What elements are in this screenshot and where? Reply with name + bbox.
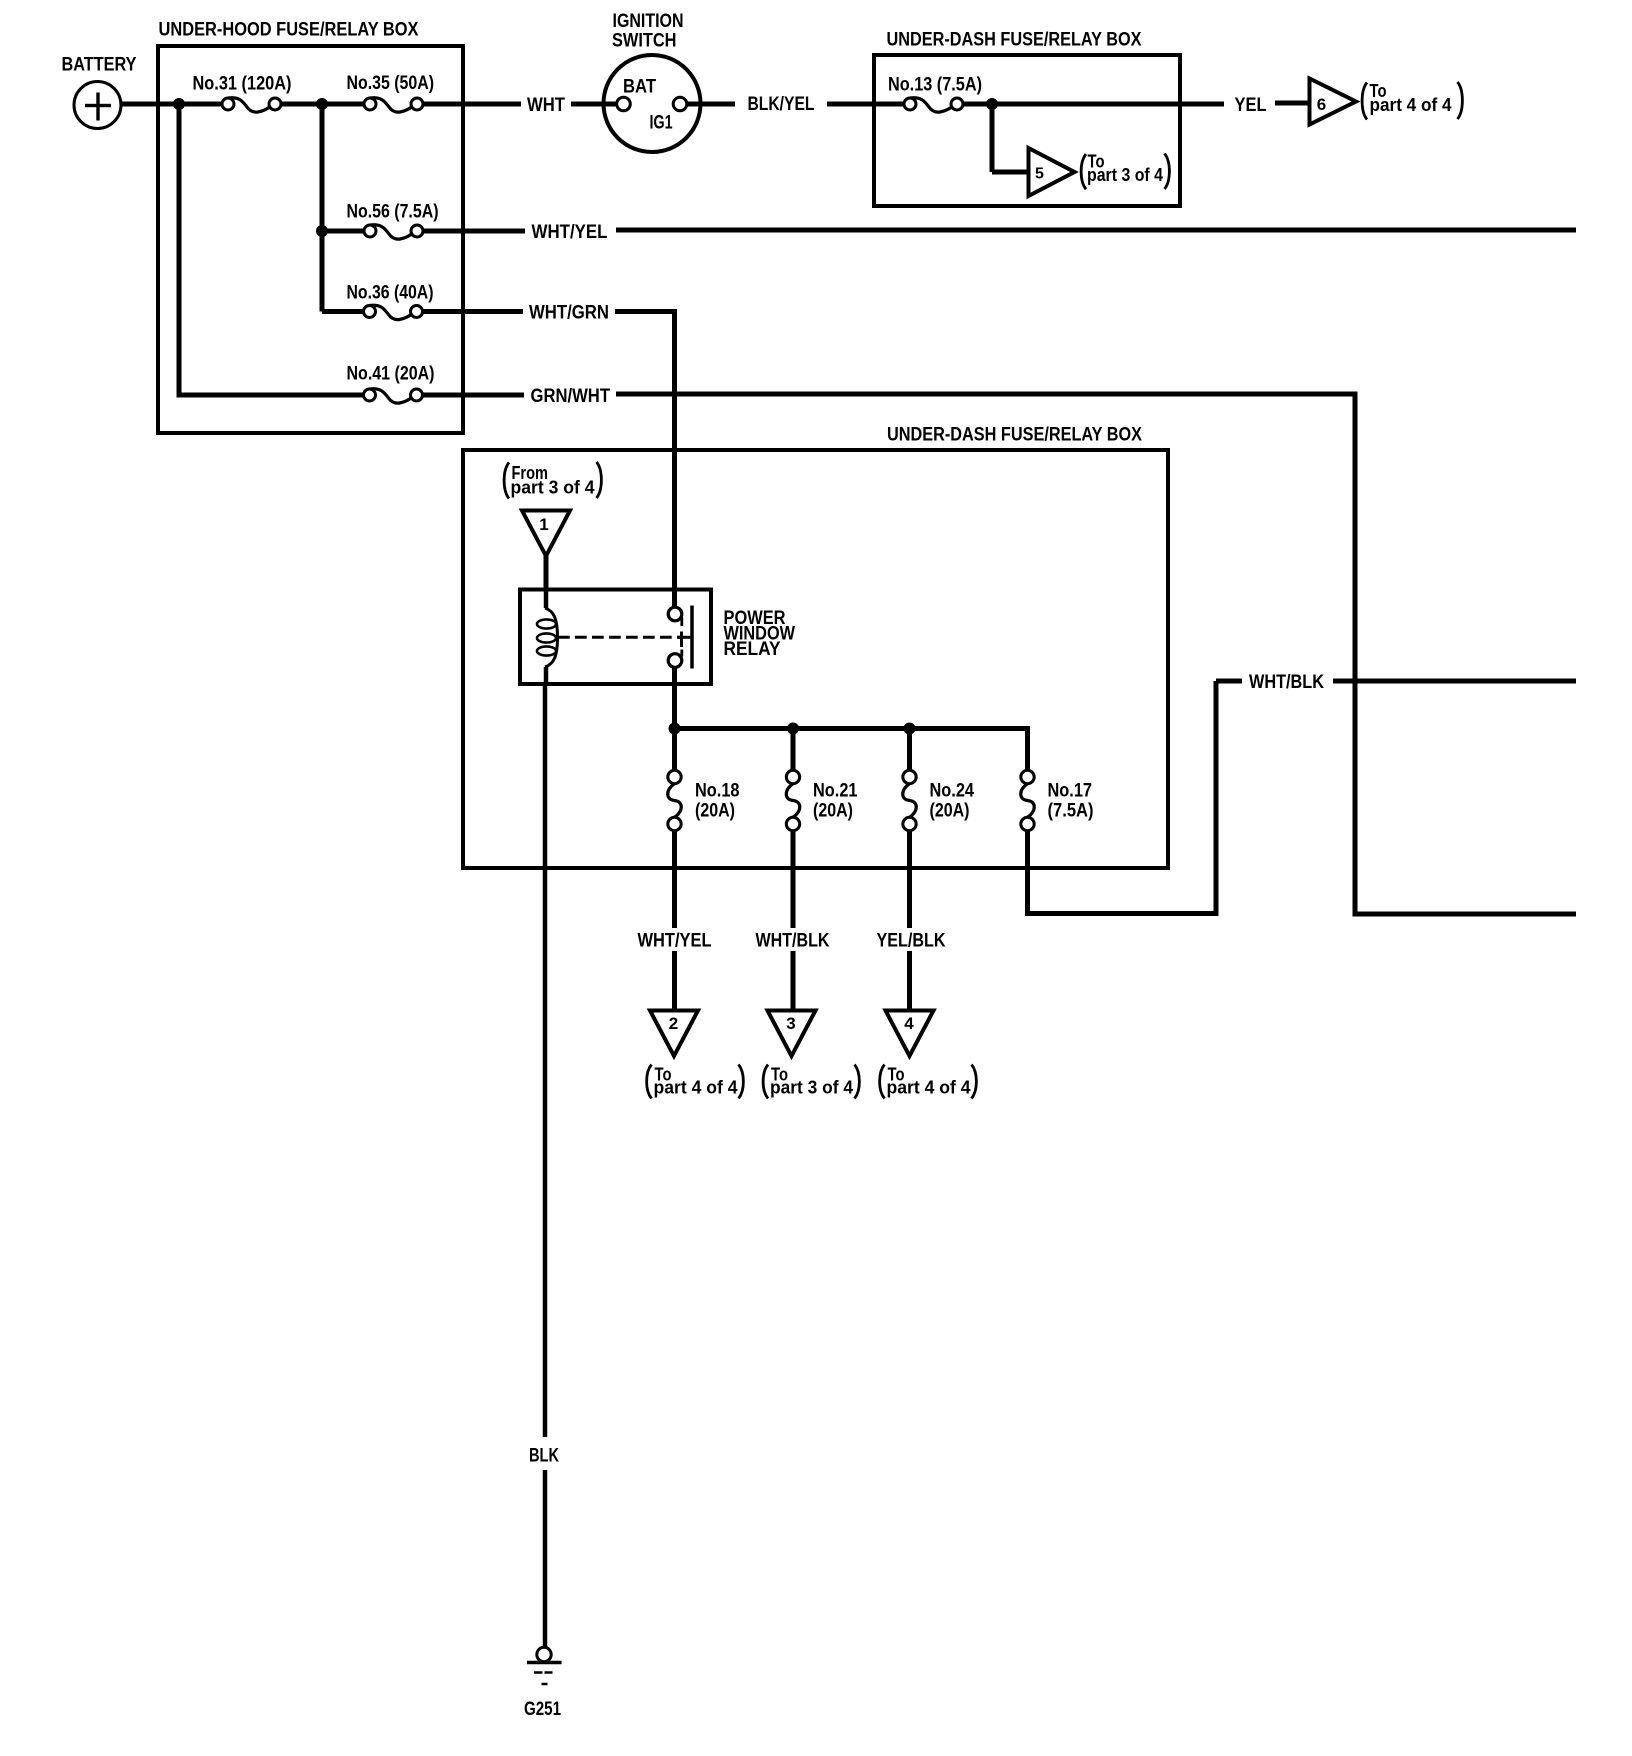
wire No.17 down (1025, 831, 1030, 917)
svg-text:WHT: WHT (527, 95, 565, 116)
svg-text:SWITCH: SWITCH (612, 31, 677, 52)
wire No.18 down (672, 831, 677, 929)
pin BAT (617, 97, 631, 111)
fuse No.56 (7.5A) (370, 225, 414, 239)
wire WHT/BLK stub (1216, 679, 1242, 684)
power window relay box (520, 590, 711, 685)
wire No.24 down (907, 831, 912, 929)
wire column to No.36 (322, 309, 364, 314)
svg-text:5: 5 (1035, 166, 1044, 183)
svg-text:YEL/BLK: YEL/BLK (877, 931, 946, 952)
wire bus corner to fuse No.17 (1025, 726, 1030, 771)
svg-text:WHT/BLK: WHT/BLK (756, 931, 830, 952)
connector 4 triangle (886, 1011, 934, 1057)
wire No.35 to ignition switch (423, 102, 522, 107)
svg-text:BATTERY: BATTERY (62, 55, 137, 76)
wire No.56 tap (322, 229, 364, 234)
svg-text:WHT/BLK: WHT/BLK (1249, 672, 1324, 693)
svg-text:No.56 (7.5A): No.56 (7.5A) (347, 202, 439, 223)
svg-text:No.21: No.21 (813, 781, 858, 802)
svg-text:2: 2 (669, 1014, 678, 1033)
svg-text:WHT/YEL: WHT/YEL (638, 931, 712, 952)
svg-text:GRN/WHT: GRN/WHT (531, 386, 611, 407)
connector 5 triangle (1029, 148, 1075, 196)
svg-text:part 4 of 4: part 4 of 4 (887, 1078, 971, 1098)
wire WHT to BAT pin (571, 102, 617, 107)
node junction No.35 column (316, 98, 328, 110)
svg-text:6: 6 (1317, 95, 1326, 114)
relay contact to fuses (668, 654, 682, 668)
label To part 4 of 4 connector 4 (880, 1065, 885, 1099)
svg-text:(7.5A): (7.5A) (1048, 801, 1094, 822)
fuse No.24 (20A) (903, 784, 917, 818)
wire BLK to ground (543, 1470, 548, 1648)
relay coil (544, 591, 549, 608)
relay mechanical link dashed (558, 636, 681, 639)
svg-text:part 4 of 4: part 4 of 4 (1370, 95, 1452, 115)
wire GRN/WHT down right side (1353, 394, 1358, 917)
wire connector 1 to relay (544, 552, 549, 591)
wire No.17 bottom run (1025, 911, 1219, 916)
label To part 3 of 4 connector 5 (1081, 154, 1086, 189)
wire BLK/YEL to under-dash box (827, 102, 906, 107)
wire WHT/YEL long line (616, 228, 1576, 233)
wire battery column to No.41 (177, 393, 364, 398)
node junction No.56 tap (316, 225, 328, 237)
svg-text:No.41 (20A): No.41 (20A) (347, 364, 435, 385)
wire WHT/GRN to corner (615, 309, 677, 314)
wire relay coil to BLK (543, 686, 548, 1437)
fuse No.18 (20A) (668, 784, 682, 818)
svg-text:IGNITION: IGNITION (613, 11, 684, 32)
connector 3 triangle (768, 1011, 816, 1057)
under-dash fuse/relay box top (874, 55, 1180, 206)
wire WHT/YEL to connector 2 (672, 951, 677, 1013)
ground G251 symbol (537, 1647, 551, 1661)
svg-text:UNDER-DASH FUSE/RELAY BOX: UNDER-DASH FUSE/RELAY BOX (887, 425, 1142, 446)
svg-text:No.18: No.18 (695, 781, 740, 802)
wire No.21 down (791, 831, 796, 929)
wire GRN/WHT bottom right (1353, 912, 1577, 917)
wire No.13 to YEL (964, 102, 1224, 107)
wire WHT/BLK long line (1333, 679, 1576, 684)
fuse No.41 (20A) (370, 389, 414, 403)
connector 6 triangle (1310, 79, 1357, 125)
svg-text:YEL: YEL (1235, 95, 1267, 116)
wire relay output to bus (672, 667, 677, 731)
svg-text:4: 4 (904, 1014, 914, 1033)
fuse No.35 (50A) (370, 98, 414, 112)
node bus junction No.24 (904, 723, 916, 735)
node junction after No.13 (986, 98, 998, 110)
label To part 4 of 4 connector 6 (1362, 83, 1367, 120)
relay contact from ignition (668, 607, 682, 621)
svg-text:IG1: IG1 (650, 113, 673, 134)
label To part 4 of 4 connector 2 (647, 1065, 652, 1099)
svg-text:part 3 of 4: part 3 of 4 (770, 1078, 853, 1098)
wire No.41 to label (423, 393, 525, 398)
wire junction drop to connector 5 (990, 104, 995, 172)
svg-text:No.36 (40A): No.36 (40A) (347, 283, 434, 304)
svg-text:part 4 of 4: part 4 of 4 (654, 1078, 738, 1098)
svg-text:part 3 of 4: part 3 of 4 (511, 478, 595, 498)
svg-text:No.31 (120A): No.31 (120A) (193, 74, 292, 95)
wire battery to under-hood box (119, 102, 224, 107)
wire No.56 to label (423, 229, 526, 234)
wire WHT/GRN drop to relay (672, 309, 677, 608)
svg-text:No.35 (50A): No.35 (50A) (347, 73, 435, 94)
fuse No.17 (7.5A) (1021, 784, 1035, 818)
fuse bus line (675, 726, 1031, 731)
relay contact bar (690, 606, 694, 669)
wire bus to fuse No.18 (672, 729, 677, 772)
label From part 3 of 4 (504, 463, 509, 499)
battery positive terminal B+ (74, 82, 121, 129)
svg-text:(20A): (20A) (930, 801, 970, 822)
node bus junction No.18 (669, 723, 681, 735)
svg-text:RELAY: RELAY (724, 639, 781, 660)
fuse No.36 (40A) (370, 305, 414, 319)
svg-text:BLK: BLK (529, 1446, 559, 1467)
under-hood fuse/relay box (158, 46, 463, 433)
svg-text:WHT/GRN: WHT/GRN (529, 303, 609, 324)
wire YEL to connector 6 (1275, 101, 1311, 106)
wire YEL/BLK to connector 4 (907, 951, 912, 1013)
fuse No.31 (120A) (228, 98, 272, 112)
svg-text:UNDER-HOOD FUSE/RELAY BOX: UNDER-HOOD FUSE/RELAY BOX (159, 20, 419, 41)
svg-text:(20A): (20A) (695, 801, 735, 822)
label To part 3 of 4 connector 3 (763, 1065, 768, 1099)
wire junction column to No.36 (320, 104, 325, 312)
svg-text:3: 3 (786, 1014, 795, 1033)
node bus junction No.21 (787, 723, 799, 735)
svg-text:(20A): (20A) (813, 801, 853, 822)
wire No.31 to No.35 (281, 102, 364, 107)
wire bus to fuse No.24 (907, 729, 912, 772)
svg-text:No.17: No.17 (1048, 781, 1093, 802)
svg-text:BAT: BAT (623, 77, 656, 98)
svg-text:BLK/YEL: BLK/YEL (748, 94, 815, 115)
wire bus to fuse No.21 (791, 729, 796, 772)
wire junction to No.41 column (177, 104, 182, 395)
svg-text:G251: G251 (524, 1699, 561, 1720)
wire WHT/BLK to connector 3 (791, 951, 796, 1013)
connector 2 triangle (650, 1011, 698, 1057)
svg-text:WHT/YEL: WHT/YEL (532, 222, 608, 243)
wire No.36 to label (423, 309, 524, 314)
ignition switch body (604, 55, 701, 152)
svg-text:part 3 of 4: part 3 of 4 (1087, 165, 1163, 185)
svg-text:No.24: No.24 (930, 781, 975, 802)
svg-text:No.13 (7.5A): No.13 (7.5A) (888, 75, 982, 96)
svg-text:UNDER-DASH FUSE/RELAY BOX: UNDER-DASH FUSE/RELAY BOX (887, 30, 1142, 51)
connector 1 triangle (522, 511, 570, 557)
fuse No.13 (7.5A) (910, 98, 954, 112)
wire IG1 to BLK/YEL (687, 102, 735, 107)
svg-text:1: 1 (539, 515, 548, 534)
fuse No.21 (20A) (786, 784, 800, 818)
node junction battery bus (173, 98, 185, 110)
wire GRN/WHT to right corner (616, 392, 1358, 397)
pin IG1 (673, 97, 687, 111)
wire riser to WHT/BLK (1214, 681, 1219, 914)
under-dash fuse/relay box lower (463, 450, 1168, 868)
